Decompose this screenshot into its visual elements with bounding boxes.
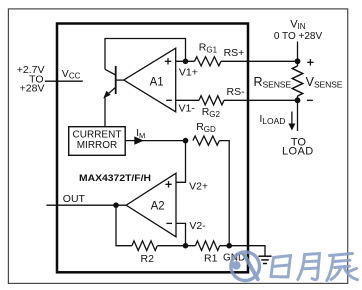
resistor R1 <box>195 241 219 251</box>
svg-text:OUT: OUT <box>63 193 86 205</box>
node RS- / Rsense bottom junction <box>295 97 301 103</box>
wire RGD to GND node <box>219 141 229 246</box>
label - (Vsense polarity) <box>307 99 313 101</box>
watermark character 辰 <box>327 254 358 281</box>
svg-text:RS+: RS+ <box>224 47 245 59</box>
svg-text:0 TO +28V: 0 TO +28V <box>274 31 323 42</box>
node V1+ junction <box>183 59 189 65</box>
wire RS+ to Rsense top <box>221 60 298 62</box>
svg-text:CURRENT: CURRENT <box>73 130 122 141</box>
wire R2 to node <box>157 245 195 247</box>
svg-text:A2: A2 <box>151 201 165 213</box>
svg-text:+28V: +28V <box>20 83 45 95</box>
resistor RGD <box>193 136 220 145</box>
wire VCC input stub <box>45 80 83 82</box>
node IM junction <box>183 138 189 144</box>
svg-text:R2: R2 <box>141 253 155 265</box>
wire RS- to Rsense bottom <box>224 99 298 101</box>
svg-text:V2+: V2+ <box>189 180 208 192</box>
arrow ILOAD <box>291 112 293 125</box>
wire feedback loop top <box>105 39 186 70</box>
wire A1 noninverting input / RS+ line <box>176 60 195 62</box>
wire GND node to ground <box>220 246 265 257</box>
wire A1 inverting input / RS- line <box>176 99 199 101</box>
wire IM current mirror output <box>125 140 185 142</box>
svg-text:V1-: V1- <box>179 102 196 114</box>
node R2/R1 junction <box>183 243 189 249</box>
op-amp A2 <box>126 173 176 237</box>
wire VIN to Rsense <box>297 42 299 67</box>
wire A2 inverting input to R2/R1 node <box>176 223 186 245</box>
current mirror block <box>69 127 126 156</box>
svg-text:V1+: V1+ <box>179 66 198 78</box>
node GND junction <box>226 243 232 249</box>
resistor R2 <box>132 241 157 251</box>
arrow IM <box>134 136 144 144</box>
wire OUT node down to R2 <box>116 205 132 246</box>
node OUT junction <box>113 202 119 208</box>
wire A2 noninverting input to IM node <box>176 141 186 183</box>
ground <box>258 256 271 263</box>
op-amp A1 <box>124 48 176 112</box>
wire OUT <box>46 204 126 206</box>
watermark character 日 <box>271 256 291 278</box>
svg-text:ILOAD: ILOAD <box>260 114 286 126</box>
node RS+ / Rsense top junction <box>295 58 301 64</box>
svg-text:V2-: V2- <box>189 220 206 232</box>
svg-text:A1: A1 <box>150 77 164 89</box>
IC boundary box MAX4372 <box>57 24 248 273</box>
svg-text:MIRROR: MIRROR <box>77 140 118 151</box>
svg-text:LOAD: LOAD <box>282 146 314 158</box>
wire Q1 base to A1 output <box>116 79 125 81</box>
wire Rsense bottom <box>297 96 299 131</box>
resistor RSENSE <box>292 66 302 96</box>
wire Q1 emitter to current mirror <box>104 97 106 127</box>
transistor Q1 <box>103 66 116 99</box>
watermark character 月 <box>298 254 320 280</box>
label + (Vsense polarity) <box>307 61 313 63</box>
svg-text:MAX4372T/F/H: MAX4372T/F/H <box>79 173 151 183</box>
svg-text:RS-: RS- <box>227 86 246 98</box>
resistor RG1 <box>195 57 222 66</box>
resistor RG2 <box>199 96 224 105</box>
svg-text:R1: R1 <box>204 252 218 264</box>
watermark logo circle <box>231 252 260 281</box>
